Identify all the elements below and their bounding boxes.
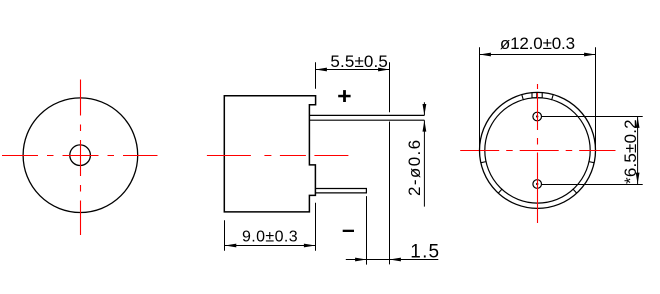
dimension Ø12.0±0.3 dimension line [480,54,596,56]
dimension 5.5±0.5 arrows [316,68,390,72]
left view outer circle [23,98,138,213]
plus polarity mark [338,90,350,102]
left view center hole circle [70,145,91,166]
front view rim tick left [481,162,487,163]
dimension Ø12.0±0.3 extension lines [480,47,596,154]
front view top notch [532,92,543,98]
front view rim tick top-left [522,94,524,100]
front view inner rim circle [485,98,590,203]
side view bottom pin [316,189,367,193]
front view top pin hole [533,112,542,121]
dimension 5.5±0.5 extension lines [316,62,390,264]
left view horizontal centerline [2,155,158,157]
svg-text:9.0±0.3: 9.0±0.3 [242,228,298,245]
dimension 2-Ø0.6 dimension line with arrows [423,102,425,206]
side view top pin [309,115,424,120]
dimension 1.5 arrows [355,258,401,262]
dimension 1.5 extension line left [366,196,368,265]
dimension Ø12.0±0.3 arrows [480,53,596,57]
front view rim tick bottom-left [498,189,502,194]
side view horizontal centerline [207,155,349,157]
dimension 6.5±0.2 leader lines [542,117,643,185]
svg-text:1.5: 1.5 [410,241,440,262]
svg-text:5.5±0.5: 5.5±0.5 [330,52,388,71]
front view outer circle [480,92,596,208]
front view rim tick right [589,162,595,163]
dimension 6.5±0.2 arrows [636,117,640,185]
side view body outline [224,96,315,212]
svg-text:2-ø0.6: 2-ø0.6 [405,138,424,196]
minus polarity mark [343,230,354,232]
dimension 5.5±0.5 dimension line [316,69,390,71]
dimension 1.5 dimension line [346,259,439,261]
svg-text:ø12.0±0.3: ø12.0±0.3 [500,34,575,53]
dimension 9.0±0.3 extension lines [225,203,316,251]
dimension 6.5±0.2 dimension line [637,117,639,185]
front view horizontal centerline [460,150,615,152]
dimension 9.0±0.3 arrows [225,244,315,248]
svg-text:*6.5±0.2: *6.5±0.2 [621,119,640,184]
left view vertical centerline [80,80,82,236]
front view vertical centerline [537,84,539,223]
front view rim tick top-right [552,94,554,100]
front view bottom pin hole [533,180,542,189]
dimension 9.0±0.3 dimension line [225,245,315,247]
front view rim tick bottom-right [573,189,577,194]
